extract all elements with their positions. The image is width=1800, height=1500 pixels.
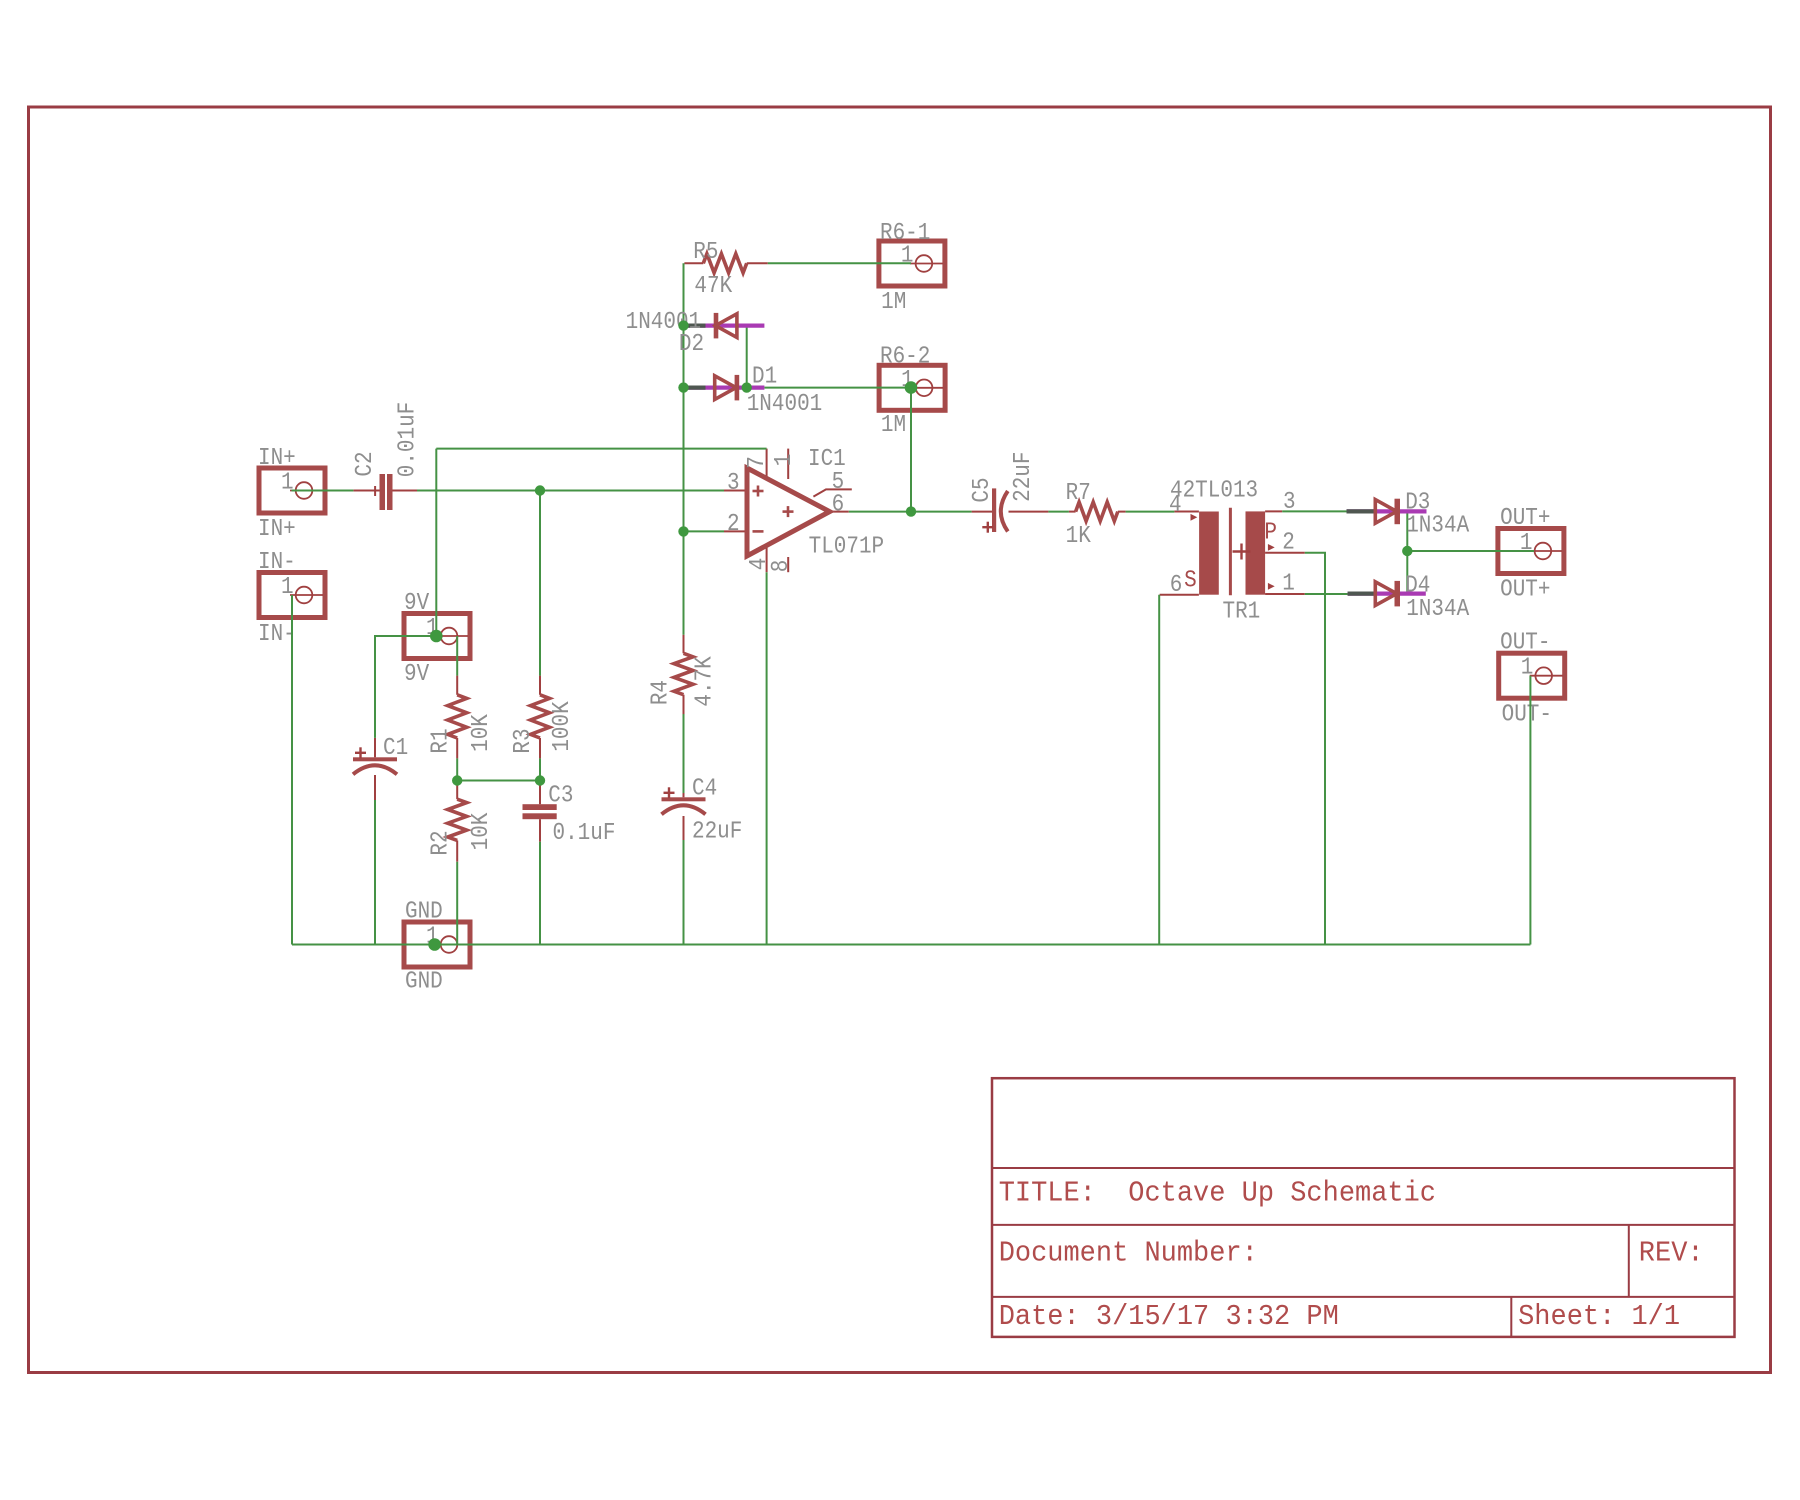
resistor R1 10K [426,676,494,759]
svg-text:R4: R4 [646,680,674,705]
svg-text:1M: 1M [881,411,906,439]
junction D3 D4 to OUT+ [1402,546,1412,556]
svg-text:GND: GND [405,967,443,995]
wire R2 bottom to ground rail [456,862,458,945]
connector R6-2 1M [879,342,945,438]
wire node to OUT+ [1407,550,1534,552]
svg-text:1M: 1M [881,288,906,316]
capacitor C5 22uF polarized [968,452,1049,533]
svg-text:R2: R2 [426,830,454,855]
op-amp IC1 TL071P [724,445,884,573]
wire 9V vertical [435,449,437,636]
wire 9V pin to R1 top [456,636,458,676]
svg-text:R1: R1 [426,728,454,753]
svg-text:7: 7 [743,456,771,469]
junction op-amp output / R6-2 [906,506,916,516]
wire node to R3 top [539,491,541,676]
svg-text:IN-: IN- [258,620,296,648]
diode D1 1N4001 [685,362,822,417]
capacitor C2 0.01uF [351,402,421,510]
wire to op-amp pin 2 [684,530,725,532]
ground connector GND [404,897,470,995]
svg-text:3: 3 [727,469,740,497]
svg-text:6: 6 [1170,571,1183,599]
wire TR1 pin 1 to D4 [1305,593,1348,595]
junction D1 cathode [742,382,752,392]
wire ground rail [292,944,1530,946]
wire 9V rail to op-amp pin 7 [436,448,766,450]
svg-text:R6-1: R6-1 [880,219,930,247]
junction R6-2 pin [905,381,918,394]
diode D3 1N34A [1347,488,1470,539]
svg-text:TR1: TR1 [1223,597,1261,625]
svg-text:1K: 1K [1066,522,1092,550]
wire C2 to op-amp pin 3 [417,490,724,492]
wire C1 to ground rail [374,800,376,945]
junction IN+ node to R3 [535,485,545,495]
svg-text:9V: 9V [404,660,430,688]
svg-text:22uF: 22uF [692,817,742,845]
resistor R5 47K [684,238,767,300]
svg-text:C3: C3 [548,781,573,809]
wire OUT- to ground rail [1529,676,1531,945]
svg-text:1: 1 [281,468,294,496]
svg-text:1N34A: 1N34A [1406,595,1469,623]
svg-text:1: 1 [770,454,798,467]
svg-text:2: 2 [1282,528,1295,556]
resistor R7 1K [1066,479,1126,550]
wire TR1 pin 3 to D3 [1282,510,1347,512]
svg-text:4.7K: 4.7K [690,656,718,707]
connector IN+ [258,444,325,543]
svg-text:IN+: IN+ [258,515,296,543]
svg-text:C2: C2 [351,451,379,476]
wire C5 to R7 [1048,511,1069,513]
wire TR1 pin 6 to ground rail [1158,595,1160,945]
svg-text:0.01uF: 0.01uF [393,402,421,478]
junction R3 C3 node [535,775,545,785]
svg-text:R3: R3 [509,728,537,753]
svg-text:OUT+: OUT+ [1500,575,1550,603]
svg-text:22uF: 22uF [1009,452,1037,502]
svg-text:47K: 47K [694,272,732,300]
wire IN+ to C2 [292,490,354,492]
junction op-amp pin 2 / R4 [678,526,688,536]
svg-text:C5: C5 [968,477,996,502]
wire R7 to TR1 pin 4 [1126,511,1175,513]
svg-text:1: 1 [1282,569,1295,597]
resistor R2 10K [426,785,494,862]
svg-text:1N4001: 1N4001 [747,390,823,418]
svg-text:R6-2: R6-2 [880,342,930,370]
wire R3 bottom to node [539,758,541,780]
wire op-amp output to C5 [849,511,972,513]
connector OUT+ [1498,504,1564,603]
wire IN- down to ground rail [291,595,293,945]
wire TR1 pin 2 down to ground rail [1305,553,1325,945]
wire R4 bottom to C4 [683,714,685,793]
svg-text:OUT+: OUT+ [1500,504,1550,532]
svg-text:R5: R5 [693,238,718,266]
svg-text:REV:: REV: [1639,1238,1704,1270]
svg-text:IN-: IN- [258,548,296,576]
svg-text:P: P [1264,518,1277,546]
connector IN- [258,548,325,648]
svg-text:R7: R7 [1066,479,1091,507]
diode D2 1N4001 [626,308,765,358]
wire R5 to R6-1 [768,262,911,264]
svg-text:IN+: IN+ [258,444,296,472]
svg-text:C1: C1 [383,734,408,762]
wire R1/R2 node to R3/C3 node [457,780,540,782]
svg-text:OUT-: OUT- [1500,628,1550,656]
wire R5/D2/D1 column to op-amp pin 2 and R4 [683,263,685,634]
svg-text:1: 1 [1521,653,1534,681]
junction D1 anode column [678,382,688,392]
wire C3 bottom to ground rail [539,842,541,945]
wire op-amp pin 4 to ground rail [766,572,768,944]
svg-text:0.1uF: 0.1uF [553,819,616,847]
connector OUT- [1499,628,1565,727]
svg-text:10K: 10K [467,812,495,850]
wire D2 anode to D1 cathode [746,326,748,388]
svg-text:100K: 100K [548,701,576,752]
connector R6-1 1M [879,219,945,316]
diode D4 1N34A [1348,571,1470,622]
svg-text:9V: 9V [404,589,430,617]
junction 9V pin [430,630,443,643]
svg-text:2: 2 [727,510,740,538]
svg-text:OUT-: OUT- [1502,700,1552,728]
svg-text:S: S [1184,566,1197,594]
wire R6-2 to op-amp output [910,388,912,512]
svg-text:10K: 10K [467,714,495,752]
svg-text:42TL013: 42TL013 [1170,476,1258,504]
resistor R3 100K [509,676,576,759]
svg-text:TL071P: TL071P [809,532,885,560]
wire 9V to C1 column [375,636,436,738]
capacitor C4 22uF polarized [662,774,743,844]
svg-text:C4: C4 [692,774,717,802]
svg-text:Sheet: 1/1: Sheet: 1/1 [1518,1301,1680,1333]
junction GND pin [428,938,441,951]
wire R1 bottom to node [456,758,458,780]
svg-text:GND: GND [405,897,443,925]
capacitor C3 0.1uF [523,781,616,846]
resistor R4 4.7K [646,635,718,718]
wire C4 bottom to ground rail [683,840,685,945]
supply connector 9V [404,589,470,688]
svg-text:Document Number:: Document Number: [999,1238,1258,1270]
svg-text:1N34A: 1N34A [1406,511,1469,539]
svg-text:6: 6 [832,490,845,518]
transformer TR1 42TL013 [1160,476,1305,625]
junction D2 anode column [678,320,688,330]
capacitor C1 polarized [353,734,408,800]
svg-text:8: 8 [767,560,795,573]
wire D1 to R6-2 [764,387,911,389]
title block [992,1078,1735,1337]
svg-text:TITLE: Octave Up Schematic: TITLE: Octave Up Schematic [999,1178,1436,1210]
wire D3 to D4 cathodes [1406,511,1408,593]
svg-text:IC1: IC1 [808,445,846,473]
svg-text:D1: D1 [752,362,777,390]
svg-text:D2: D2 [679,330,704,358]
junction R1 R2 node [452,775,462,785]
svg-text:Date: 3/15/17 3:32 PM: Date: 3/15/17 3:32 PM [999,1301,1339,1333]
svg-text:1: 1 [1520,529,1533,557]
